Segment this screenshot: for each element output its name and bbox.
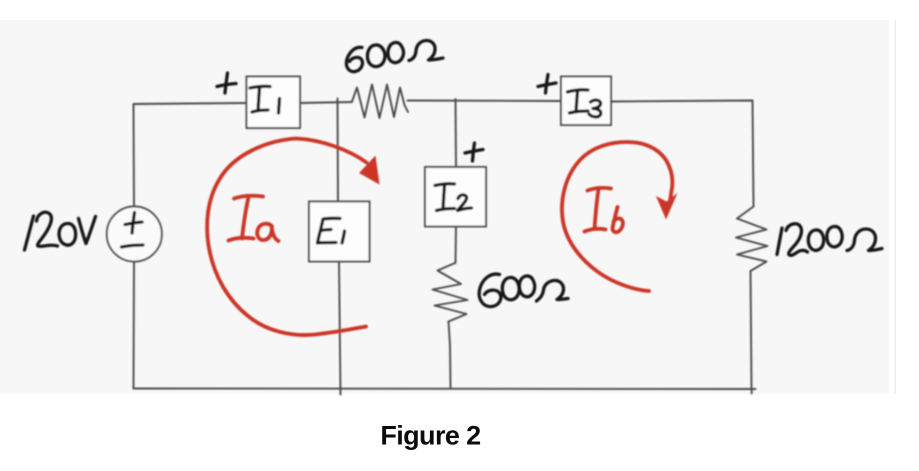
element box E1	[309, 202, 370, 262]
label 120V	[25, 216, 34, 250]
red label Ib	[585, 188, 612, 232]
plus sign near I3	[538, 75, 556, 94]
red arrowhead of loop Ia	[359, 156, 380, 185]
red arrowhead of loop Ib	[656, 193, 678, 220]
svg-text:Figure 2: Figure 2	[380, 421, 480, 451]
label 1200 ohm	[777, 228, 782, 255]
resistor R1200 zigzag	[736, 207, 768, 272]
minus sign in source	[122, 245, 144, 247]
red label Ia	[229, 196, 264, 241]
label I2	[435, 184, 455, 211]
resistor R600 top zigzag	[352, 85, 408, 119]
wire I1 to resistor 600 top	[300, 102, 352, 103]
right edge faint line	[895, 20, 897, 394]
wire below vertical resistor	[449, 322, 451, 389]
paper background	[0, 20, 889, 394]
label 600 ohm right of vertical resistor	[479, 274, 501, 307]
wire E1 branch lower	[339, 262, 341, 395]
wire I3 to top-right corner down	[611, 101, 754, 207]
label I3	[568, 90, 589, 113]
plus sign near I2	[465, 143, 483, 161]
wire right vertical bottom	[751, 271, 752, 394]
wire bottom	[134, 388, 756, 391]
label E1	[318, 218, 341, 243]
red mesh loop Ib	[562, 142, 672, 291]
wire junction branch to E1	[337, 99, 340, 202]
wire junction branch to I2	[455, 99, 458, 167]
ammeter box I3	[561, 77, 611, 126]
plus sign near I1	[217, 73, 236, 93]
wire left vertical top + top-left horizontal	[134, 103, 247, 207]
wire left vertical below source	[133, 261, 136, 389]
label 600 ohm top	[346, 47, 362, 71]
ammeter box I2	[425, 167, 486, 227]
plus sign in source	[125, 213, 142, 234]
wire resistor to I3	[408, 100, 562, 103]
ammeter box I1	[247, 77, 301, 129]
resistor R600 vertical zigzag	[433, 263, 468, 322]
red mesh loop Ia	[207, 139, 366, 336]
label I1	[250, 86, 270, 112]
voltage source circle 120V	[107, 207, 162, 262]
wire I2 to resistor 600 vertical	[455, 227, 458, 264]
